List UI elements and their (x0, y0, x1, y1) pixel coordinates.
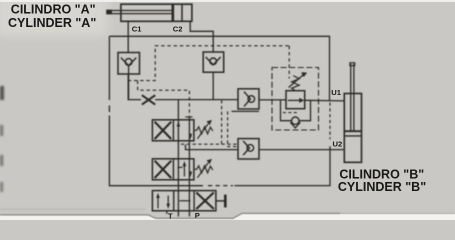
top white page strip (0, 0, 455, 2)
wire flow control out to U1 (305, 99, 345, 102)
wire CV2 box to main line (212, 72, 214, 99)
pilot line dashed from U1 junction down (329, 103, 331, 140)
pilot line under CV3 horizontal (232, 110, 260, 112)
cylinder A rod end cap (106, 10, 112, 15)
wire through CV1 lower (128, 66, 141, 100)
flow control enclosure (dashed) (272, 68, 319, 131)
check valve CV2 box (203, 52, 224, 72)
pilot dashes horizontal to CV4 (181, 143, 238, 145)
bypass check ball (292, 117, 299, 124)
wire main line T-bus corner to CV2 line junction to CV3 (178, 99, 238, 101)
svg-text:CYLINDER "A": CYLINDER "A" (8, 16, 96, 30)
valve V2 spring (194, 166, 213, 173)
cylinder B piston (double line) (344, 130, 361, 132)
valve V3 middle cell bar (179, 200, 190, 202)
faint page rule bottom-left (0, 209, 145, 210)
cylinder B rod end cap (350, 63, 355, 66)
valve V2 cell divider (172, 159, 174, 180)
valve V2 adjust arrow (197, 163, 208, 178)
check valve CV4 ball (247, 145, 254, 152)
wire CV1 box to main line (127, 74, 129, 100)
svg-text:CYLINDER "B": CYLINDER "B" (338, 180, 426, 194)
check valve CV1 seat V (121, 58, 136, 66)
cylinder A body (121, 4, 192, 21)
pressure compensator box (286, 91, 305, 109)
valve V2 body (152, 159, 194, 180)
compensator adjustment arrow (289, 75, 303, 88)
bottom white page strip (torn photo edge) (0, 214, 455, 220)
cylinder A piston (double line) (172, 4, 175, 21)
wire bottom line right section up to U2 junction (235, 146, 331, 185)
compensator spring (292, 76, 300, 91)
valve V3 left cell down arrow (167, 196, 169, 207)
svg-text:U1: U1 (331, 88, 341, 97)
pilot branch down to P-bus (dashed) (138, 81, 190, 117)
valve V3 body (152, 191, 216, 211)
pilot line CV1 (dashed) (128, 46, 289, 81)
valve V3 right cell X (196, 193, 214, 210)
wire U2 line (186, 145, 239, 150)
valve V1 adjust arrow (197, 124, 208, 139)
T-bus wire (177, 100, 179, 217)
pilot line to CV4 (dashed vertical from main line) (221, 100, 223, 144)
light page corner behind title text (0, 0, 108, 36)
wire bottom line dashed middle section (208, 185, 233, 187)
cylinder B body (344, 94, 361, 163)
check valve CV3 ball (248, 96, 255, 103)
check valve CV1 ball (125, 59, 132, 66)
check valve CV3 seat V (244, 92, 250, 107)
wire C1 port down from cylinder A (127, 21, 129, 52)
wire left vertical line small dash (108, 106, 110, 113)
valve V3 left cell below stub (166, 211, 168, 214)
svg-text:C2: C2 (173, 24, 183, 33)
check valve CV4 seat V (243, 141, 249, 155)
valve V2 blocked port T bar (178, 166, 183, 168)
check valve CV2 seat V (206, 57, 221, 65)
valve V3 divider 1 (173, 191, 175, 211)
check valve CV4 box (238, 139, 259, 159)
wire C2 port jog down-right from cylinder A (190, 21, 213, 52)
valve V1 body (152, 120, 194, 141)
valve V2 left cell X (155, 161, 172, 178)
check valve CV2 ball (210, 58, 217, 65)
svg-text:T: T (168, 212, 173, 221)
valve V2 up arrow (183, 164, 185, 177)
svg-text:C1: C1 (132, 24, 142, 33)
svg-text:CILINDRO "A": CILINDRO "A" (11, 3, 96, 17)
wire U2 line right to cylinder B (259, 149, 344, 151)
valve V1 cell divider (172, 120, 174, 141)
bypass check seat V (290, 122, 300, 128)
compensator flow arrow (288, 99, 301, 101)
wire main line from X to T-bus corner (155, 99, 178, 101)
P-bus top tick (185, 116, 192, 118)
valve V3 divider 2 (193, 191, 195, 211)
check valve CV1 box (118, 53, 140, 75)
plug X symbol on main line (142, 95, 155, 104)
cylinder B rod (350, 64, 352, 131)
svg-text:U2: U2 (333, 140, 343, 149)
pilot dash under compensator (283, 112, 298, 114)
valve V3 left cell up arrow (157, 196, 159, 209)
wire left vertical line lower part (109, 116, 203, 186)
left photo edge dark marks (0, 86, 4, 100)
pilot line under CV3 (dashed vertical) (228, 111, 238, 146)
photo bottom edge shadow (0, 213, 340, 218)
P-bus wire (188, 117, 190, 217)
wire CV3 to flow control (259, 99, 286, 101)
pilot drop to compensator spring (dashed) (288, 46, 290, 79)
wire top long line from left loop to cylinder B side (109, 36, 329, 100)
valve V1 down arrow (189, 134, 193, 139)
valve V1 left cell X (155, 122, 172, 139)
valve V1 up arrow (177, 121, 181, 126)
valve V1 spring (194, 127, 213, 134)
bypass loop wire (281, 100, 292, 121)
check valve CV3 box (horizontal) (238, 89, 259, 109)
cylinder A rod (107, 10, 172, 12)
valve V3 actuator pin (216, 200, 225, 202)
wire left vertical line upper part (108, 36, 110, 100)
svg-text:P: P (195, 211, 200, 220)
valve V2 down arrow (189, 172, 193, 177)
